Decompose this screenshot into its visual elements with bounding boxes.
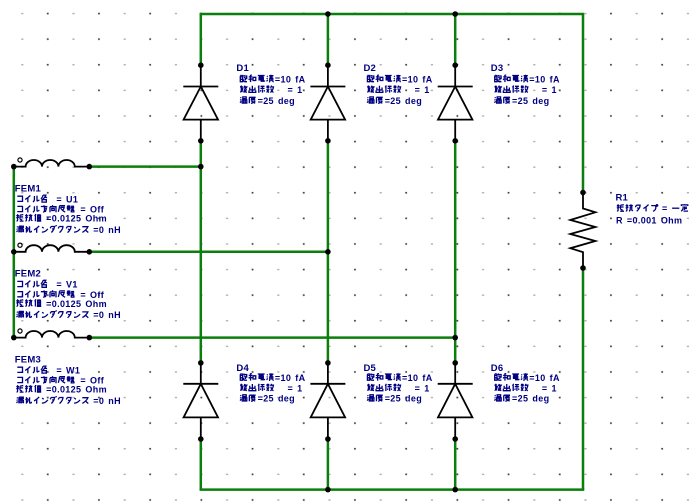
- svg-text:D4: D4: [236, 363, 249, 374]
- svg-text:= 1: = 1: [542, 85, 557, 95]
- svg-text:R1: R1: [616, 192, 629, 203]
- svg-text:=25 deg: =25 deg: [385, 394, 422, 404]
- svg-text:=25 deg: =25 deg: [512, 394, 549, 404]
- svg-text:= 1: = 1: [415, 85, 430, 95]
- svg-text:=10 fA: =10 fA: [529, 74, 560, 84]
- svg-text:= 1: = 1: [415, 383, 430, 393]
- svg-text:D5: D5: [364, 363, 377, 374]
- svg-text:D2: D2: [364, 63, 377, 74]
- svg-text:=0 nH: =0 nH: [93, 396, 121, 406]
- svg-text:=0.0125 Ohm: =0.0125 Ohm: [46, 299, 107, 309]
- svg-text:=10 fA: =10 fA: [402, 373, 433, 383]
- svg-text:=10 fA: =10 fA: [275, 373, 306, 383]
- svg-text:=25 deg: =25 deg: [385, 96, 422, 106]
- svg-text:= U1: = U1: [56, 195, 78, 205]
- svg-text:=0 nH: =0 nH: [93, 310, 121, 320]
- svg-text:=10 fA: =10 fA: [529, 373, 560, 383]
- svg-text:=10 fA: =10 fA: [275, 74, 306, 84]
- svg-text:=: =: [662, 204, 668, 214]
- svg-text:= W1: = W1: [56, 366, 80, 376]
- svg-text:=0 nH: =0 nH: [93, 225, 121, 235]
- svg-text:FEM1: FEM1: [15, 183, 42, 194]
- svg-text:D6: D6: [491, 363, 504, 374]
- svg-text:=10 fA: =10 fA: [402, 74, 433, 84]
- svg-text:=0.0125 Ohm: =0.0125 Ohm: [46, 385, 107, 395]
- svg-text:= 1: = 1: [542, 383, 557, 393]
- svg-text:=0.0125 Ohm: =0.0125 Ohm: [46, 214, 107, 224]
- svg-text:=25 deg: =25 deg: [258, 394, 295, 404]
- svg-text:= 1: = 1: [288, 85, 303, 95]
- svg-text:D1: D1: [236, 63, 249, 74]
- svg-text:= V1: = V1: [56, 280, 77, 290]
- svg-text:FEM2: FEM2: [15, 269, 41, 280]
- svg-text:D3: D3: [491, 63, 504, 74]
- svg-text:= 1: = 1: [288, 383, 303, 393]
- svg-text:=25 deg: =25 deg: [512, 96, 549, 106]
- svg-text:=25 deg: =25 deg: [258, 96, 295, 106]
- svg-text:FEM3: FEM3: [15, 354, 41, 365]
- svg-text:R =0.001 Ohm: R =0.001 Ohm: [616, 215, 682, 225]
